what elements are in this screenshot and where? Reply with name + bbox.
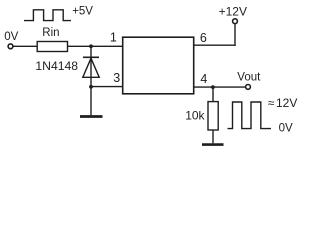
terminal Vout <box>246 85 251 90</box>
wire input terminal to Rin <box>13 45 37 47</box>
svg-text:+5V: +5V <box>72 6 93 18</box>
wire node B to ground <box>90 87 92 115</box>
terminal +12V <box>233 19 238 24</box>
wire +12V vertical <box>234 24 236 46</box>
svg-text:Vout: Vout <box>237 72 261 84</box>
junction node A <box>89 44 93 48</box>
svg-text:+12V: +12V <box>219 5 247 19</box>
svg-text:6: 6 <box>200 31 207 45</box>
svg-text:4: 4 <box>200 72 207 86</box>
wire pin 4 to Vout <box>194 86 246 88</box>
ground (output side) <box>202 143 224 146</box>
svg-text:0V: 0V <box>279 122 293 134</box>
svg-text:≈: ≈ <box>268 96 275 110</box>
output square-wave symbol <box>228 102 272 129</box>
resistor Rin <box>37 42 67 52</box>
resistor R1 10k <box>208 102 218 130</box>
svg-text:10k: 10k <box>185 109 205 123</box>
IC U1 <box>123 37 194 94</box>
wire Rin to pin 1 <box>68 45 123 47</box>
wire diode anode to node B <box>90 77 92 87</box>
junction node Vout <box>211 85 215 89</box>
terminal 0V input <box>8 44 13 49</box>
ground (input side) <box>80 115 103 118</box>
svg-text:12V: 12V <box>276 96 297 110</box>
svg-text:0V: 0V <box>4 31 18 43</box>
svg-text:Rin: Rin <box>42 27 59 39</box>
svg-text:3: 3 <box>113 71 120 85</box>
svg-text:1: 1 <box>110 30 117 44</box>
junction node B <box>89 85 93 89</box>
wire R1 to ground <box>212 130 214 143</box>
diode D1 1N4148 <box>83 57 99 77</box>
svg-text:1N4148: 1N4148 <box>35 59 78 73</box>
wire node A to diode cathode <box>90 46 92 57</box>
input square-wave symbol <box>24 10 71 21</box>
wire pin 6 to +12V drop <box>194 44 236 46</box>
wire node Vout to R1 <box>212 87 214 102</box>
wire node B to pin 3 <box>91 86 123 88</box>
